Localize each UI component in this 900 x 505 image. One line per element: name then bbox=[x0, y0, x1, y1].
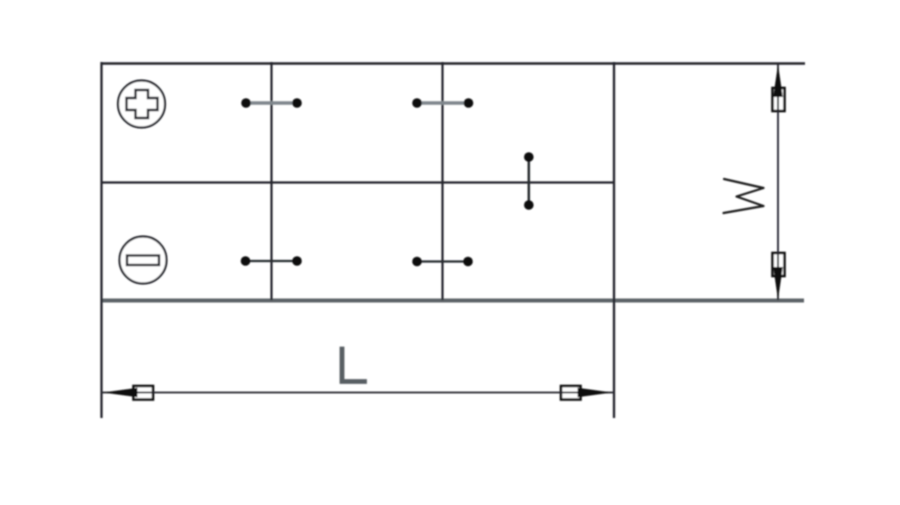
battery right edge / L extension line bbox=[613, 62, 615, 418]
cell divider line 2 bbox=[441, 62, 443, 300]
cell connector top-right bbox=[412, 98, 473, 108]
cell connector bottom-right bbox=[412, 257, 473, 267]
L dimension line bbox=[101, 392, 614, 394]
battery bottom edge line (thick gray) bbox=[101, 299, 804, 303]
cell connector top-left bbox=[241, 98, 302, 108]
positive terminal bbox=[118, 81, 165, 128]
W label (rotated) bbox=[724, 179, 764, 213]
L dimension arrow left head bbox=[103, 388, 138, 397]
battery left edge / L extension line bbox=[100, 62, 102, 418]
cell connector bottom-left bbox=[241, 256, 302, 266]
W dimension arrow top head bbox=[773, 65, 783, 98]
L dimension arrow left box bbox=[134, 386, 154, 400]
negative terminal bbox=[120, 237, 167, 284]
battery middle horizontal line bbox=[101, 181, 614, 183]
cell connector vertical bbox=[524, 152, 534, 210]
L label bbox=[342, 349, 365, 382]
W dimension arrow top box bbox=[773, 88, 785, 111]
battery top edge line bbox=[101, 62, 805, 65]
W dimension line bbox=[777, 64, 779, 300]
W dimension arrow bottom box bbox=[773, 253, 785, 276]
cell divider line 1 bbox=[270, 62, 272, 300]
L dimension arrow right box bbox=[561, 386, 581, 400]
L dimension arrow right head bbox=[578, 388, 613, 397]
W dimension arrow bottom head bbox=[773, 267, 783, 300]
